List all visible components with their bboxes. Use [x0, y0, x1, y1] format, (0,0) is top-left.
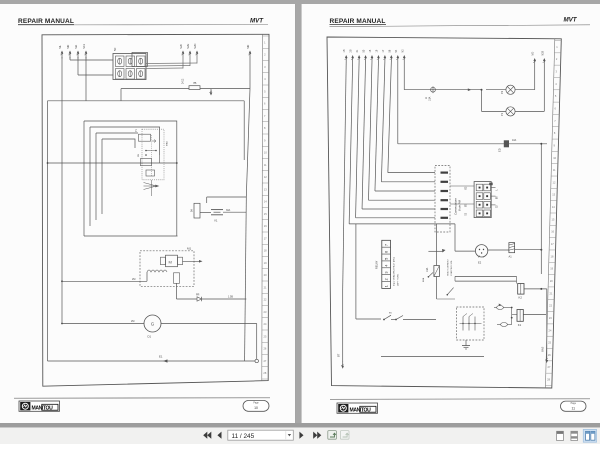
svg-text:MD: MD: [532, 52, 535, 56]
svg-text:N2B: N2B: [541, 50, 544, 55]
svg-text:M1: M1: [187, 247, 191, 251]
svg-text:10A: 10A: [512, 139, 517, 142]
svg-text:REPAIR MANUAL: REPAIR MANUAL: [330, 18, 386, 25]
svg-text:PR: PR: [196, 294, 200, 297]
svg-text:HEAT CURRENT: HEAT CURRENT: [447, 258, 450, 276]
svg-text:D1: D1: [148, 335, 152, 339]
svg-text:RELAY: RELAY: [375, 260, 379, 269]
svg-text:STARTING SOL: STARTING SOL: [450, 259, 453, 276]
svg-text:N2F: N2F: [179, 43, 183, 48]
svg-text:10A: 10A: [426, 267, 429, 272]
svg-text:5F: 5F: [113, 47, 117, 51]
svg-text:30A: 30A: [226, 209, 231, 212]
svg-text:V1: V1: [214, 219, 218, 223]
svg-text:11 / 245: 11 / 245: [232, 433, 255, 440]
svg-text:10: 10: [254, 406, 258, 410]
svg-text:N2E: N2E: [186, 43, 190, 48]
svg-text:N2D: N2D: [193, 43, 197, 48]
svg-text:MA: MA: [74, 45, 78, 49]
svg-text:2412: 2412: [182, 78, 185, 84]
svg-text:5: 5: [384, 258, 388, 260]
svg-text:2M: 2M: [132, 278, 135, 281]
svg-text:E1: E1: [159, 355, 163, 359]
svg-text:MVT: MVT: [564, 17, 578, 24]
svg-text:ML: ML: [58, 45, 62, 49]
svg-text:G: G: [151, 322, 155, 327]
svg-text:MD: MD: [246, 45, 250, 49]
svg-text:Page: Page: [253, 403, 259, 405]
svg-text:10A: 10A: [429, 96, 432, 101]
svg-text:il tipo CRALSRUOTA LT (MC): il tipo CRALSRUOTA LT (MC): [393, 257, 396, 286]
svg-text:REPAIR MANUAL: REPAIR MANUAL: [18, 18, 74, 25]
svg-text:11: 11: [572, 407, 576, 411]
svg-text:7: 7: [384, 244, 388, 246]
svg-text:P1: P1: [500, 112, 504, 116]
svg-text:Page: Page: [571, 403, 577, 405]
svg-text:M: M: [169, 260, 172, 265]
svg-text:1.5B: 1.5B: [228, 296, 233, 299]
svg-text:K2: K2: [519, 296, 523, 300]
svg-text:MAS: MAS: [166, 141, 169, 146]
svg-text:E2: E2: [478, 261, 482, 265]
svg-text:6: 6: [384, 251, 388, 253]
svg-text:3: 3: [384, 272, 388, 274]
svg-text:1: 1: [384, 285, 388, 287]
svg-text:MD: MD: [66, 45, 70, 49]
svg-text:8 vie PM: 8 vie PM: [458, 199, 462, 211]
svg-text:2M: 2M: [131, 320, 134, 323]
svg-text:A1: A1: [509, 255, 513, 259]
svg-text:2B: 2B: [350, 49, 353, 52]
svg-text:2M: 2M: [138, 154, 140, 157]
svg-text:P2: P2: [500, 90, 504, 94]
svg-text:9A: 9A: [191, 209, 194, 212]
svg-text:MVT: MVT: [250, 18, 264, 25]
svg-text:MAS: MAS: [542, 346, 545, 352]
svg-text:H: H: [424, 97, 428, 99]
svg-text:4: 4: [384, 265, 388, 267]
svg-text:7B: 7B: [193, 81, 197, 85]
svg-text:ED: ED: [498, 148, 502, 152]
svg-text:BT: BT: [337, 353, 341, 357]
svg-text:B2A: B2A: [422, 277, 425, 282]
svg-text:1B: 1B: [343, 49, 346, 52]
svg-text:N13: N13: [82, 43, 86, 48]
svg-text:2: 2: [384, 278, 388, 280]
svg-text:LEFT TURN.: LEFT TURN.: [398, 273, 400, 286]
svg-text:K1: K1: [518, 323, 522, 327]
